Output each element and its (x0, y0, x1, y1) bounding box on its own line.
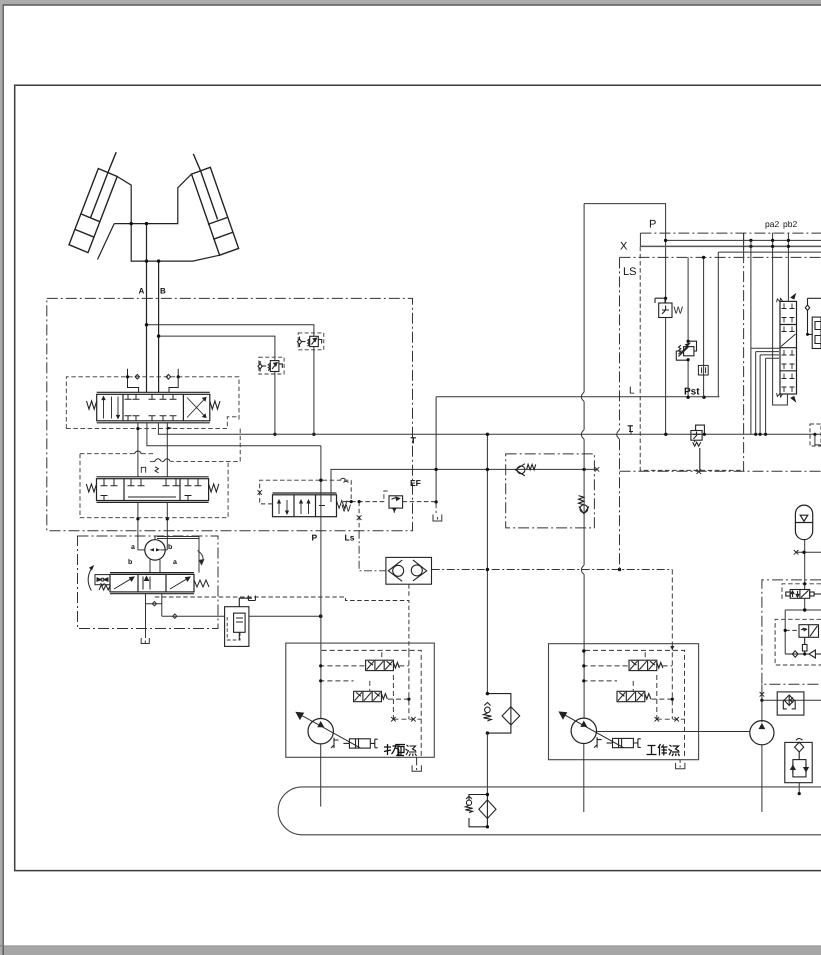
svg-text:Pst: Pst (684, 387, 700, 398)
svg-text:X: X (620, 241, 628, 253)
svg-text:T: T (628, 424, 634, 434)
svg-text:L: L (629, 386, 635, 397)
svg-text:Ls: Ls (345, 533, 355, 543)
svg-text:W: W (342, 504, 352, 515)
svg-text:EF: EF (410, 478, 421, 488)
svg-text:pa2: pa2 (765, 219, 779, 229)
svg-text:b: b (128, 558, 132, 566)
svg-text:b: b (168, 543, 172, 551)
svg-text:B: B (160, 287, 166, 296)
svg-text:a: a (173, 559, 177, 566)
svg-text:a: a (131, 544, 135, 551)
svg-text:pb2: pb2 (783, 219, 797, 229)
svg-text:P: P (312, 533, 318, 543)
svg-text:W: W (674, 306, 684, 317)
svg-text:P: P (649, 219, 656, 231)
svg-text:LS: LS (623, 266, 636, 278)
svg-text:A: A (139, 287, 145, 296)
svg-text:T: T (411, 436, 417, 446)
